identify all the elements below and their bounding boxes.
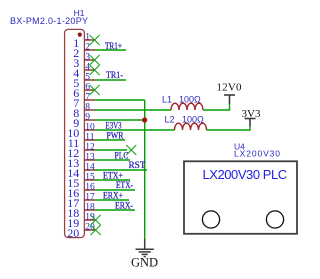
svg-text:E3V3: E3V3 [106, 121, 122, 131]
power symbol 3V3 [245, 119, 256, 127]
svg-text:ERX+: ERX+ [103, 191, 123, 201]
power net label 12V0 [217, 82, 243, 94]
net label RST [129, 160, 147, 170]
wire ERX- (pin 18) [95, 209, 135, 211]
no-connect X pin 4 [90, 65, 100, 75]
no-connect X pin 1 [90, 35, 100, 45]
PLC module U4 body [184, 161, 297, 234]
pin stubs 1-20 [84, 40, 95, 230]
wire GND vertical [144, 100, 146, 240]
PLC module title text [203, 167, 287, 182]
PLC module U4 designator labels [234, 141, 245, 151]
svg-text:3: 3 [85, 53, 90, 63]
power symbol 12V0 [224, 95, 235, 104]
wire L2 to 3V3 [207, 126, 251, 130]
wire pin 9 to junction [95, 119, 145, 121]
svg-text:16: 16 [85, 183, 95, 193]
connector H1 designator label [74, 8, 85, 18]
svg-text:9: 9 [85, 113, 90, 123]
svg-text:ERX-: ERX- [115, 201, 133, 211]
svg-text:6: 6 [85, 83, 90, 93]
svg-text:14: 14 [85, 163, 95, 173]
no-connect X pin 6 [90, 85, 100, 95]
net label PWR [107, 131, 124, 141]
svg-text:L2: L2 [165, 115, 175, 125]
svg-text:ETX+: ETX+ [103, 171, 123, 181]
svg-text:LX200V30 PLC: LX200V30 PLC [203, 167, 287, 182]
net label TR1- [106, 70, 123, 80]
svg-text:17: 17 [85, 193, 95, 203]
connector H1 part number BX-PM2.0-1-20PY [10, 16, 88, 26]
svg-text:10: 10 [85, 123, 95, 133]
svg-text:PLC: PLC [115, 151, 129, 161]
net label TR1+ [105, 41, 122, 51]
outside pin numbers 1-20 [85, 33, 95, 233]
wire pin 12 [95, 149, 127, 151]
no-connect X pin 19 [91, 215, 101, 225]
wire ETX- (pin 16) [95, 189, 135, 191]
svg-text:15: 15 [85, 173, 95, 183]
pin-1 marker dot [78, 33, 82, 37]
wire TR1+ (pin 2) [95, 49, 126, 51]
svg-text:TR1-: TR1- [106, 70, 123, 80]
inductor L2 [175, 123, 207, 130]
net label ETX- [116, 180, 133, 190]
svg-text:BX-PM2.0-1-20PY: BX-PM2.0-1-20PY [10, 16, 88, 26]
svg-text:13: 13 [85, 153, 95, 163]
wire TR1- (pin 5) [95, 79, 126, 81]
mounting hole circle left [202, 211, 219, 228]
svg-text:8: 8 [85, 103, 90, 113]
net label ERX- [115, 201, 133, 211]
svg-text:3V3: 3V3 [242, 108, 261, 120]
net label ETX+ [103, 171, 123, 181]
net label PLC [115, 151, 129, 161]
wire pin 8 to L1 [95, 109, 171, 111]
wire L1 to 12V0 [203, 103, 230, 110]
svg-text:100Ω: 100Ω [182, 115, 204, 125]
wire pin 7 to GND vertical [95, 99, 145, 101]
ground net label GND [131, 256, 158, 270]
wire PWR (pin 11) [95, 139, 125, 141]
svg-text:20: 20 [67, 226, 79, 240]
svg-text:2: 2 [85, 43, 90, 53]
svg-text:12V0: 12V0 [217, 82, 243, 94]
svg-text:L1: L1 [162, 95, 172, 105]
svg-text:1: 1 [85, 33, 90, 43]
svg-text:11: 11 [85, 133, 94, 143]
svg-text:GND: GND [131, 256, 158, 270]
svg-text:5: 5 [85, 73, 90, 83]
svg-text:ETX-: ETX- [116, 180, 133, 190]
svg-text:PWR: PWR [107, 131, 124, 141]
no-connect X pin 12 wire end [126, 145, 136, 155]
svg-text:TR1+: TR1+ [105, 41, 122, 51]
net label ERX+ [103, 191, 123, 201]
L2 value label [165, 115, 205, 125]
wire PLC (pin 13) [95, 159, 130, 161]
net label E3V3 [106, 121, 122, 131]
wire pin 10 (E3V3) to L2 [95, 129, 175, 131]
mounting hole circle right [266, 211, 283, 228]
svg-text:RST: RST [129, 160, 147, 170]
no-connect X pin 20 [91, 225, 101, 235]
no-connect X pin 3 [90, 55, 100, 65]
svg-text:100Ω: 100Ω [179, 95, 201, 105]
wire ETX+ (pin 15) [95, 179, 130, 181]
inside pin numbers 1-20 [67, 36, 79, 240]
svg-text:7: 7 [85, 93, 90, 103]
inductor L1 [171, 103, 203, 110]
wire ERX+ (pin 17) [95, 199, 129, 201]
svg-text:4: 4 [85, 63, 90, 73]
power net label 3V3 [242, 108, 261, 120]
svg-text:LX200V30: LX200V30 [234, 149, 280, 159]
connector H1 body [65, 29, 85, 237]
ground symbol [136, 239, 154, 257]
svg-text:12: 12 [85, 143, 95, 153]
svg-text:18: 18 [85, 203, 95, 213]
L1 value label [162, 95, 201, 105]
wire RST (pin 14) [95, 169, 147, 171]
junction dot [142, 117, 147, 122]
